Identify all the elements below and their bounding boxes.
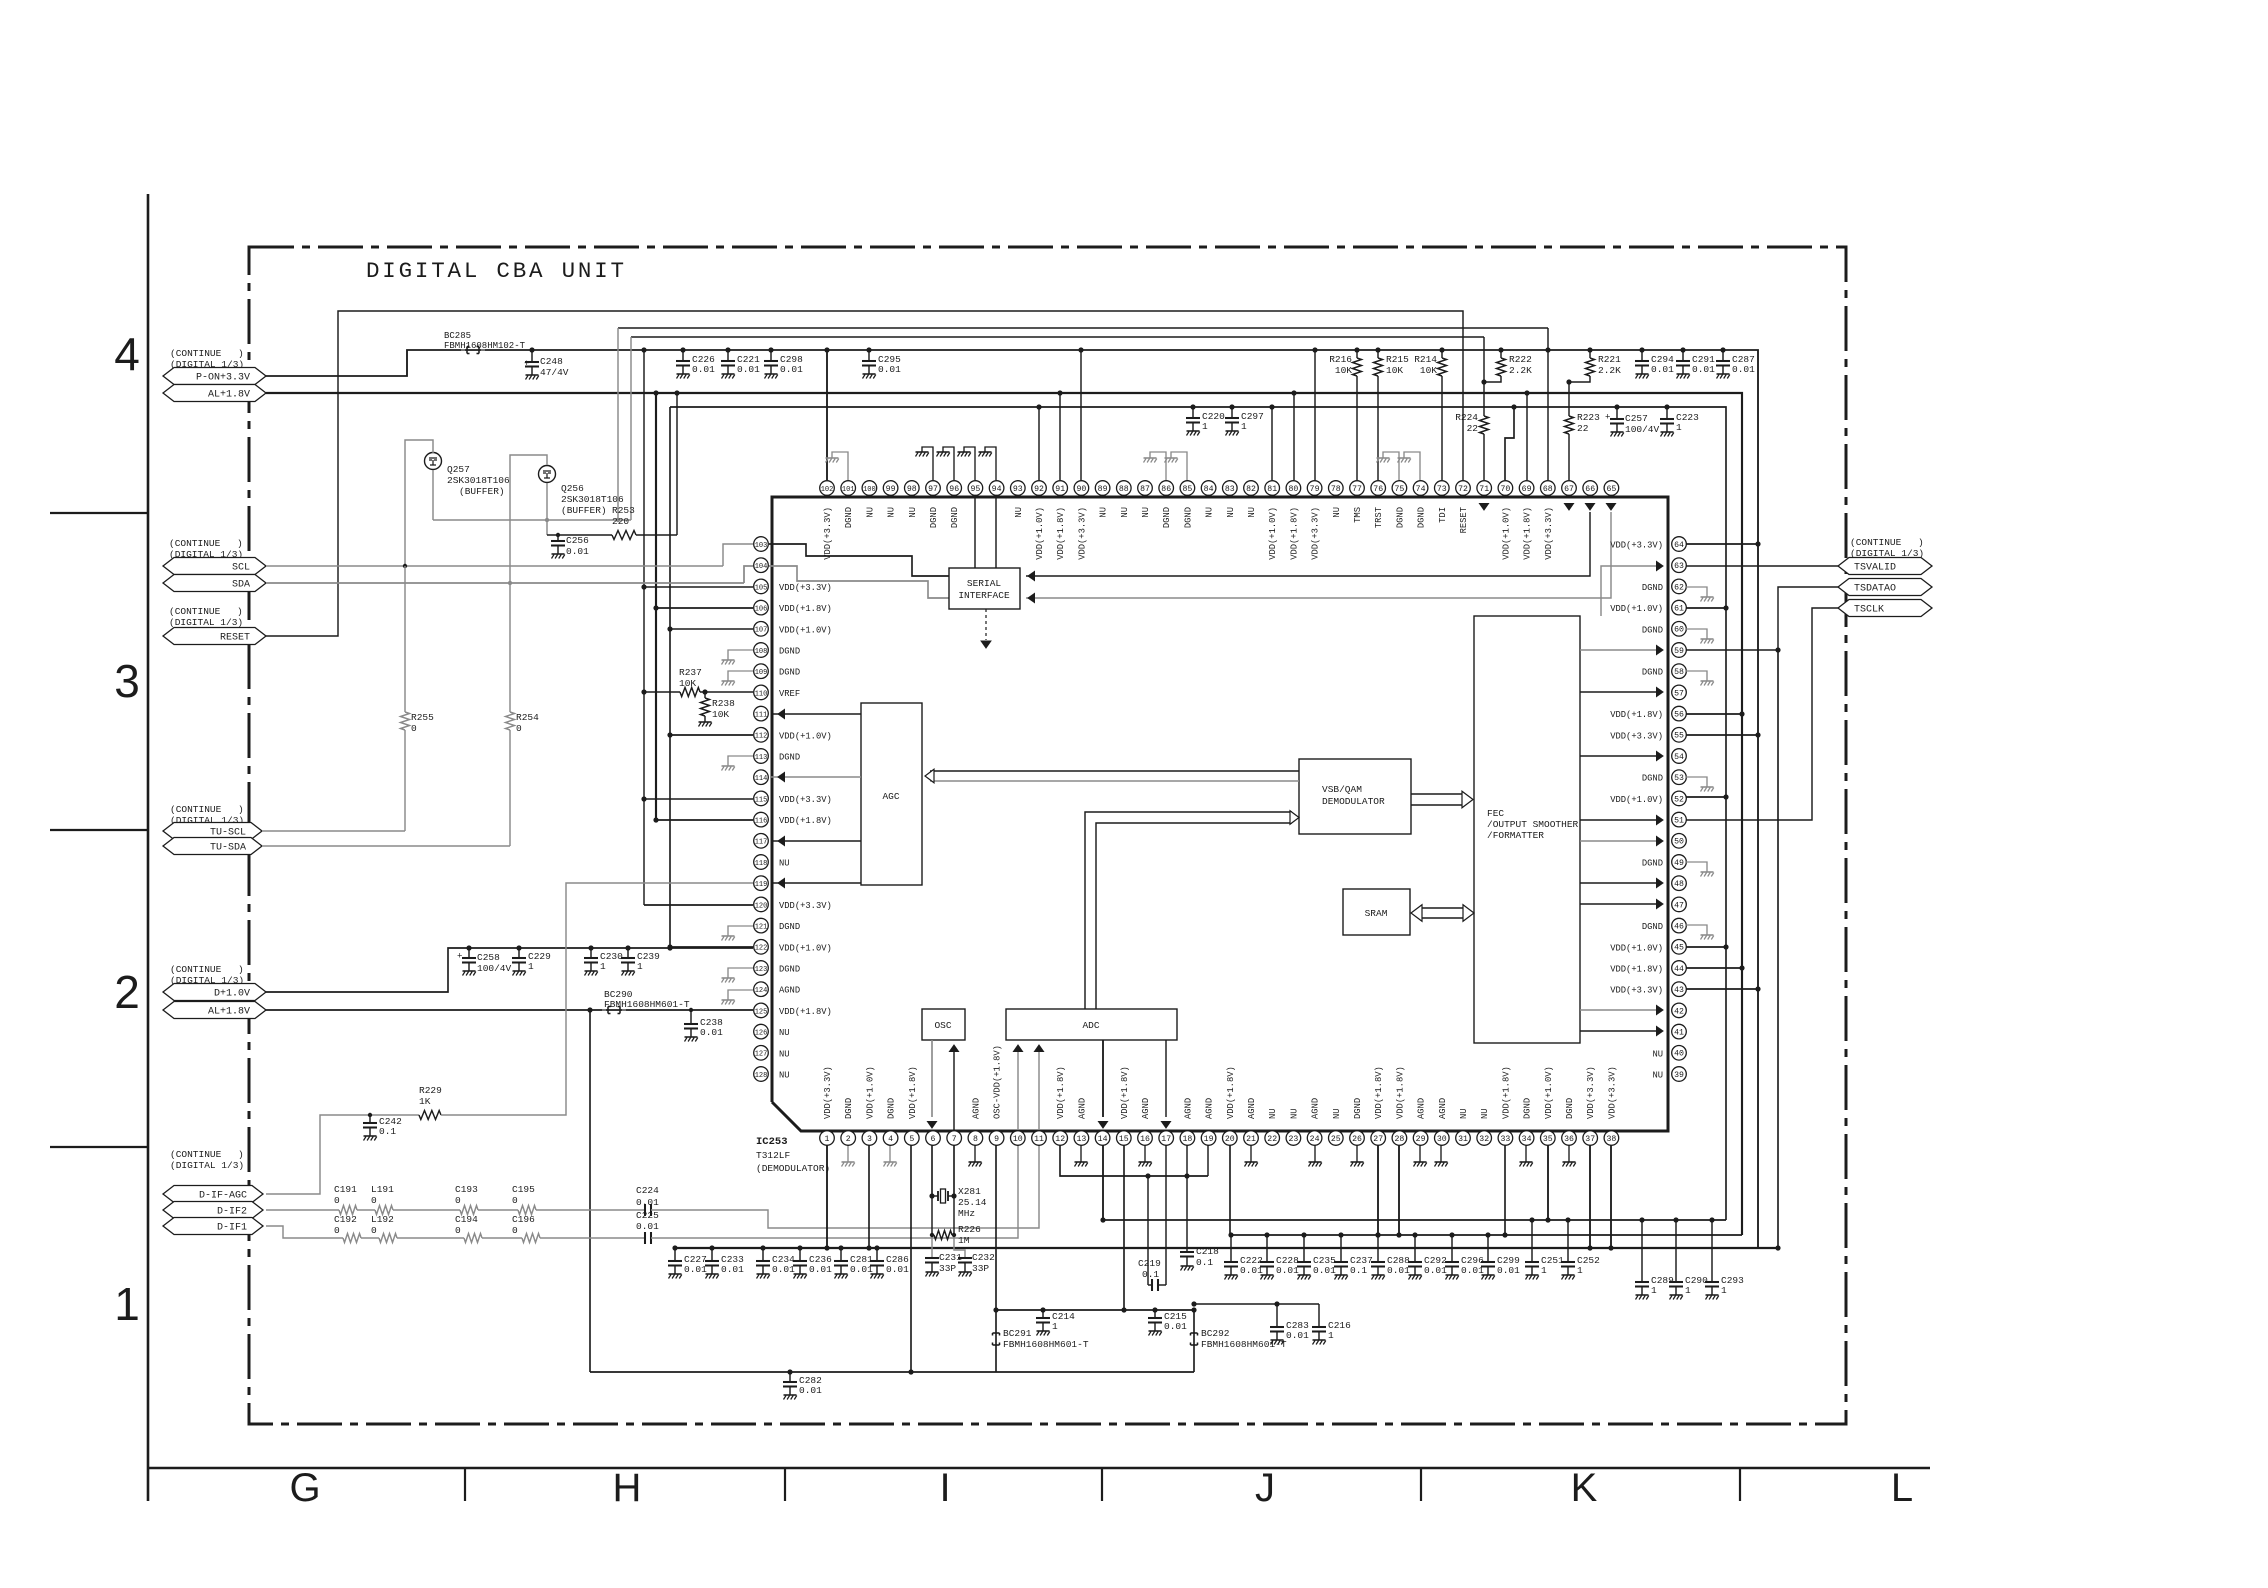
svg-text:0.01: 0.01 <box>1313 1265 1336 1276</box>
pin 107 <box>754 622 769 637</box>
svg-text:R254: R254 <box>516 712 539 723</box>
svg-text:(CONTINUE: (CONTINUE <box>1850 537 1902 548</box>
resistor R221 2.2K <box>1589 350 1591 358</box>
svg-text:DGND: DGND <box>887 1098 897 1119</box>
resistor C193 0 <box>460 1206 478 1215</box>
wire pin18 to C218 <box>1186 1145 1188 1252</box>
pin 101 <box>841 481 856 496</box>
svg-text:28: 28 <box>1394 1135 1404 1144</box>
svg-text:1: 1 <box>1685 1285 1691 1296</box>
svg-text:VDD(+3.3V): VDD(+3.3V) <box>1607 1066 1617 1119</box>
svg-text:R238: R238 <box>712 698 735 709</box>
svg-text:106: 106 <box>755 606 768 614</box>
wire C214/C215 node line <box>996 1309 1194 1311</box>
svg-text:NU: NU <box>1289 1108 1299 1119</box>
pin 62 <box>1672 579 1687 594</box>
svg-text:33: 33 <box>1500 1135 1510 1144</box>
svg-text:NU: NU <box>1141 507 1151 518</box>
svg-text:VDD(+3.3V): VDD(+3.3V) <box>1586 1066 1596 1119</box>
resistor R226 1M <box>931 1196 933 1235</box>
capacitor C299 <box>1487 1235 1489 1262</box>
wire P-ON+3.3V rail y350 <box>266 350 1758 1248</box>
pin 121 <box>754 918 769 933</box>
resistor R223 22 <box>1568 382 1570 416</box>
svg-text:): ) <box>238 348 244 359</box>
pin 119 <box>754 876 769 891</box>
pin 73 <box>1435 481 1450 496</box>
svg-text:114: 114 <box>755 775 768 783</box>
svg-text:54: 54 <box>1674 753 1684 762</box>
svg-text:VDD(+1.8V): VDD(+1.8V) <box>908 1066 918 1119</box>
capacitor C215 <box>1154 1310 1156 1318</box>
pin 24 <box>1307 1131 1322 1146</box>
svg-text:42: 42 <box>1674 1007 1684 1016</box>
wire pin15 drop to C214 line <box>1123 1145 1125 1310</box>
svg-text:R223: R223 <box>1577 412 1600 423</box>
svg-text:32: 32 <box>1479 1135 1489 1144</box>
pin 39 <box>1672 1067 1687 1082</box>
pin 47 <box>1672 897 1687 912</box>
svg-text:0.01: 0.01 <box>692 364 715 375</box>
svg-text:(DIGITAL 1/3): (DIGITAL 1/3) <box>170 1160 244 1171</box>
svg-text:AGND: AGND <box>971 1098 981 1119</box>
pin 38 <box>1604 1131 1619 1146</box>
svg-text:36: 36 <box>1564 1135 1574 1144</box>
svg-text:105: 105 <box>755 584 768 592</box>
connector SCL <box>163 558 266 575</box>
svg-text:0.01: 0.01 <box>886 1264 909 1275</box>
pin 126 <box>754 1024 769 1039</box>
svg-text:TRST: TRST <box>1374 507 1384 528</box>
capacitor C236 <box>799 1248 801 1261</box>
capacitor C257 polarized <box>1616 407 1618 419</box>
svg-text:13: 13 <box>1076 1135 1086 1144</box>
svg-text:90: 90 <box>1076 485 1086 494</box>
svg-text:0.1: 0.1 <box>1196 1257 1213 1268</box>
svg-text:VDD(+1.8V): VDD(+1.8V) <box>1056 507 1066 560</box>
wire SDA riser to pin104 <box>744 566 753 583</box>
ground pin101 <box>832 452 848 480</box>
svg-text:24: 24 <box>1310 1135 1320 1144</box>
svg-text:): ) <box>238 964 244 975</box>
svg-text:56: 56 <box>1674 711 1684 720</box>
svg-text:VDD(+1.0V): VDD(+1.0V) <box>779 943 832 953</box>
connector TSDATAO <box>1838 579 1932 596</box>
connector TSVALID <box>1838 558 1932 575</box>
svg-text:116: 116 <box>755 818 768 826</box>
svg-text:DGND: DGND <box>1642 922 1663 932</box>
wire pin44 to 1.8V riser <box>1686 967 1742 969</box>
svg-text:DGND: DGND <box>1162 507 1172 528</box>
wire pin95 to serial interface <box>974 497 976 568</box>
wire pin63 to TSVALID <box>1686 565 1838 567</box>
svg-text:10K: 10K <box>1420 365 1437 376</box>
svg-text:AL+1.8V: AL+1.8V <box>208 389 250 400</box>
pin 61 <box>1672 600 1687 615</box>
svg-text:OSC: OSC <box>934 1020 951 1031</box>
svg-text:62: 62 <box>1674 583 1684 592</box>
svg-text:72: 72 <box>1458 485 1468 494</box>
svg-text:123: 123 <box>755 966 768 974</box>
svg-text:57: 57 <box>1674 689 1684 698</box>
resistor R254 0 <box>509 583 511 712</box>
hollow arrow ADC to VSB <box>1085 812 1292 1009</box>
capacitor C288 <box>1377 1235 1379 1262</box>
svg-text:125: 125 <box>755 1008 768 1016</box>
svg-text:AGC: AGC <box>882 791 899 802</box>
wire pin90 riser to 3.3V rail <box>1080 350 1082 480</box>
pin 81 <box>1265 481 1280 496</box>
wire AGC to pin119 <box>771 882 861 884</box>
svg-text:L: L <box>1891 1466 1913 1510</box>
svg-text:C225: C225 <box>636 1210 659 1221</box>
svg-text:(CONTINUE: (CONTINUE <box>170 964 222 975</box>
capacitor C230 <box>590 948 592 958</box>
capacitor C281 <box>840 1248 842 1261</box>
pin 92 <box>1032 481 1047 496</box>
svg-text:Q257: Q257 <box>447 464 470 475</box>
pin 110 <box>754 685 769 700</box>
svg-text:X281: X281 <box>958 1186 981 1197</box>
svg-text:0: 0 <box>334 1225 340 1236</box>
svg-text:ADC: ADC <box>1082 1020 1099 1031</box>
svg-text:AGND: AGND <box>779 986 800 996</box>
pin 57 <box>1672 685 1687 700</box>
svg-text:DGND: DGND <box>1523 1098 1533 1119</box>
pin 116 <box>754 812 769 827</box>
svg-text:C257: C257 <box>1625 413 1648 424</box>
svg-text:37: 37 <box>1585 1135 1595 1144</box>
pin 42 <box>1672 1003 1687 1018</box>
pin 124 <box>754 982 769 997</box>
svg-text:(DIGITAL 1/3): (DIGITAL 1/3) <box>169 617 243 628</box>
wire pin1 to 3.3V bus <box>826 1145 828 1248</box>
wire D-IF2 chain <box>266 1209 339 1211</box>
svg-text:0.01: 0.01 <box>1424 1265 1447 1276</box>
wire TSDATAO riser upper <box>1778 587 1838 650</box>
svg-text:D-IF2: D-IF2 <box>217 1206 247 1217</box>
svg-text:0.01: 0.01 <box>737 364 760 375</box>
pin 58 <box>1672 664 1687 679</box>
svg-text:DGND: DGND <box>779 922 800 932</box>
bead BC290 <box>607 1007 609 1014</box>
svg-text:VDD(+1.8V): VDD(+1.8V) <box>1226 1066 1236 1119</box>
capacitor C292 <box>1414 1235 1416 1262</box>
wire C219 riser <box>1147 1176 1149 1285</box>
wire pin112 1.0V feed <box>670 734 753 736</box>
pin 113 <box>754 749 769 764</box>
svg-text:26: 26 <box>1352 1135 1362 1144</box>
svg-text:95: 95 <box>970 485 980 494</box>
wire pin14 drop <box>1102 1145 1104 1220</box>
svg-text:DGND: DGND <box>1353 1098 1363 1119</box>
svg-text:AGND: AGND <box>1417 1098 1427 1119</box>
ground pin95 <box>964 447 975 480</box>
wire TU-SDA <box>262 845 510 847</box>
svg-text:5: 5 <box>909 1135 914 1144</box>
svg-text:100/4V: 100/4V <box>1625 424 1660 435</box>
pin 55 <box>1672 728 1687 743</box>
svg-text:DGND: DGND <box>1395 507 1405 528</box>
svg-text:2SK3018T106: 2SK3018T106 <box>561 494 624 505</box>
svg-text:R255: R255 <box>411 712 434 723</box>
svg-text:10K: 10K <box>712 709 729 720</box>
svg-text:DIGITAL CBA UNIT: DIGITAL CBA UNIT <box>366 258 627 284</box>
ground pin74 <box>1404 452 1420 480</box>
svg-text:VDD(+1.8V): VDD(+1.8V) <box>1374 1066 1384 1119</box>
pin 100 <box>862 481 877 496</box>
svg-text:4: 4 <box>114 328 140 380</box>
svg-text:1: 1 <box>528 961 534 972</box>
wire buffer node row 520 <box>433 519 631 521</box>
svg-text:BC292: BC292 <box>1201 1328 1230 1339</box>
pin 122 <box>754 940 769 955</box>
svg-text:67: 67 <box>1564 485 1574 494</box>
svg-text:40: 40 <box>1674 1050 1684 1059</box>
svg-text:TSDATAO: TSDATAO <box>1854 583 1896 594</box>
wire pin105 3.3V feed <box>644 586 753 588</box>
connector TSCLK <box>1838 600 1932 617</box>
svg-text:VDD(+1.0V): VDD(+1.0V) <box>1035 507 1045 560</box>
wire pin12 node <box>1060 1145 1208 1176</box>
svg-text:0.01: 0.01 <box>799 1385 822 1396</box>
svg-text:DGND: DGND <box>779 753 800 763</box>
pin 89 <box>1095 481 1110 496</box>
wire pin107 1.0V feed <box>670 628 753 630</box>
pin 111 <box>754 706 769 721</box>
svg-text:18: 18 <box>1182 1135 1192 1144</box>
pin 49 <box>1672 855 1687 870</box>
svg-text:127: 127 <box>755 1051 768 1059</box>
capacitor C219 series <box>1151 1279 1153 1291</box>
svg-text:11: 11 <box>1034 1135 1044 1144</box>
svg-text:NU: NU <box>908 507 918 518</box>
svg-text:NU: NU <box>1014 507 1024 518</box>
svg-text:104: 104 <box>755 563 768 571</box>
pin 68 <box>1541 481 1556 496</box>
wire AGC to pin117 <box>771 840 861 842</box>
wire pin28 drop <box>1398 1145 1400 1235</box>
wire pin104 to serial interface <box>769 566 949 598</box>
block OSC <box>922 1009 965 1040</box>
wire pin55 to 3.3V riser <box>1686 734 1758 736</box>
svg-text:0.01: 0.01 <box>1732 364 1755 375</box>
pin 15 <box>1117 1131 1132 1146</box>
pin 8 <box>968 1131 983 1146</box>
wire bottom bus 1.0V y1220 <box>1103 1219 1726 1221</box>
svg-text:AGND: AGND <box>1141 1098 1151 1119</box>
svg-text:VDD(+1.8V): VDD(+1.8V) <box>1395 1066 1405 1119</box>
svg-text:43: 43 <box>1674 986 1684 995</box>
svg-text:VDD(+3.3V): VDD(+3.3V) <box>779 583 832 593</box>
ground pin29 <box>1419 1145 1421 1162</box>
pin 11 <box>1032 1131 1047 1146</box>
block AGC <box>861 703 922 885</box>
svg-text:AL+1.8V: AL+1.8V <box>208 1006 250 1017</box>
svg-text:0.01: 0.01 <box>1651 364 1674 375</box>
svg-text:AGND: AGND <box>1077 1098 1087 1119</box>
svg-text:74: 74 <box>1416 485 1426 494</box>
svg-text:31: 31 <box>1458 1135 1468 1144</box>
pin 96 <box>947 481 962 496</box>
ground pin60 <box>1686 629 1707 639</box>
svg-text:DGND: DGND <box>1642 668 1663 678</box>
svg-text:OSC-VDD(+1.8V): OSC-VDD(+1.8V) <box>993 1045 1003 1119</box>
svg-text:SDA: SDA <box>232 579 250 590</box>
bead BC292 <box>1193 1310 1195 1372</box>
pin 94 <box>989 481 1004 496</box>
wire FEC to pin41 <box>1580 1030 1657 1032</box>
svg-text:108: 108 <box>755 648 768 656</box>
pin 112 <box>754 728 769 743</box>
pin 33 <box>1498 1131 1513 1146</box>
pin 5 <box>905 1131 920 1146</box>
capacitor C220 <box>1192 407 1194 418</box>
wire pin11 to ADC <box>1038 1052 1040 1131</box>
pin 104 <box>754 558 769 573</box>
svg-text:C232: C232 <box>972 1252 995 1263</box>
svg-text:TSCLK: TSCLK <box>1854 604 1884 615</box>
capacitor C229 <box>518 948 520 958</box>
svg-text:0.01: 0.01 <box>809 1264 832 1275</box>
ground pin96 <box>943 447 954 480</box>
svg-text:0.01: 0.01 <box>1276 1265 1299 1276</box>
svg-text:NU: NU <box>1652 1071 1663 1081</box>
svg-text:(CONTINUE: (CONTINUE <box>170 804 222 815</box>
wire pin52 to 1.0V riser <box>1686 796 1726 798</box>
serial interface dashed arrow <box>985 609 987 640</box>
pin 45 <box>1672 940 1687 955</box>
ground pin26 <box>1356 1145 1358 1162</box>
svg-text:22: 22 <box>1267 1135 1277 1144</box>
svg-text:DGND: DGND <box>779 647 800 657</box>
svg-text:2: 2 <box>846 1135 851 1144</box>
ground pin36 <box>1568 1145 1570 1162</box>
wire serial to pin66 <box>1026 512 1590 576</box>
wire pin43 to 3.3V riser <box>1686 988 1758 990</box>
capacitor C216 <box>1318 1304 1320 1327</box>
svg-text:35: 35 <box>1543 1135 1553 1144</box>
pin 125 <box>754 1003 769 1018</box>
svg-text:(CONTINUE: (CONTINUE <box>170 348 222 359</box>
capacitor C233 <box>711 1248 713 1261</box>
pin 128 <box>754 1067 769 1082</box>
wire C283/C216 branch <box>1194 1303 1319 1305</box>
transistor Q257 2SK3018T106 BUFFER <box>425 453 442 470</box>
svg-text:50: 50 <box>1674 838 1684 847</box>
svg-text:R229: R229 <box>419 1085 442 1096</box>
svg-text:109: 109 <box>755 669 768 677</box>
svg-text:84: 84 <box>1204 485 1214 494</box>
pin 127 <box>754 1046 769 1061</box>
resistor R214 10K <box>1441 350 1443 358</box>
capacitor C298 <box>770 350 772 361</box>
svg-text:VDD(+3.3V): VDD(+3.3V) <box>823 1066 833 1119</box>
svg-text:6: 6 <box>931 1135 936 1144</box>
resistor C194 0 <box>464 1234 482 1243</box>
svg-text:100: 100 <box>863 486 876 494</box>
svg-text:33P: 33P <box>939 1263 956 1274</box>
svg-text:12: 12 <box>1055 1135 1065 1144</box>
svg-text:23: 23 <box>1288 1135 1298 1144</box>
svg-text:2: 2 <box>114 966 140 1018</box>
connector TU-SCL <box>163 823 262 840</box>
pin 83 <box>1223 481 1238 496</box>
svg-text:C224: C224 <box>636 1185 659 1196</box>
pin 1 <box>820 1131 835 1146</box>
block SRAM <box>1343 889 1410 935</box>
pin 16 <box>1138 1131 1153 1146</box>
transistor Q256 2SK3018T106 BUFFER <box>539 466 556 483</box>
wire pin38 drop <box>1610 1145 1612 1248</box>
ground pin30 <box>1440 1145 1442 1162</box>
svg-text:85: 85 <box>1182 485 1192 494</box>
svg-text:VDD(+1.8V): VDD(+1.8V) <box>779 1007 832 1017</box>
wire pin91 riser to AL rail <box>1059 393 1061 480</box>
pin 115 <box>754 791 769 806</box>
svg-text:VDD(+1.8V): VDD(+1.8V) <box>1501 1066 1511 1119</box>
pin 32 <box>1477 1131 1492 1146</box>
svg-text:NU: NU <box>779 1028 790 1038</box>
wire FEC to pin59 <box>1580 649 1657 651</box>
svg-text:K: K <box>1571 1466 1598 1510</box>
svg-text:DGND: DGND <box>779 965 800 975</box>
svg-text:VDD(+3.3V): VDD(+3.3V) <box>1311 507 1321 560</box>
svg-text:0: 0 <box>516 723 522 734</box>
svg-text:SERIAL: SERIAL <box>967 578 1002 589</box>
wire TU-SCL <box>262 830 405 832</box>
svg-text:44: 44 <box>1674 965 1684 974</box>
svg-text:0.01: 0.01 <box>1286 1330 1309 1341</box>
svg-text:0.01: 0.01 <box>850 1264 873 1275</box>
resistor R216 10K <box>1356 350 1358 358</box>
svg-text:75: 75 <box>1394 485 1404 494</box>
svg-text:93: 93 <box>1013 485 1023 494</box>
svg-text:NU: NU <box>1480 1108 1490 1119</box>
ground pin62 <box>1686 587 1707 597</box>
svg-text:20: 20 <box>1225 1135 1235 1144</box>
wire vertical 3.3V branch x644 <box>643 350 645 905</box>
svg-text:113: 113 <box>755 754 768 762</box>
svg-text:1: 1 <box>1577 1265 1583 1276</box>
page frame bottom rule <box>148 1467 1930 1470</box>
svg-text:88: 88 <box>1119 485 1129 494</box>
svg-text:C258: C258 <box>477 952 500 963</box>
wire SCL riser to pin103 <box>723 544 753 566</box>
svg-text:VDD(+3.3V): VDD(+3.3V) <box>1610 541 1663 551</box>
svg-text:126: 126 <box>755 1030 768 1038</box>
svg-text:112: 112 <box>755 733 768 741</box>
ground pin58 <box>1686 671 1707 681</box>
svg-text:0.01: 0.01 <box>1164 1321 1187 1332</box>
svg-text:45: 45 <box>1674 944 1684 953</box>
wire pin68 riser to 3.3V rail <box>1547 328 1549 480</box>
capacitor C237 <box>1340 1235 1342 1262</box>
wire ADC to pin14 <box>1102 1040 1104 1117</box>
svg-text:TU-SCL: TU-SCL <box>210 827 246 838</box>
svg-text:DGND: DGND <box>1642 859 1663 869</box>
svg-text:BC291: BC291 <box>1003 1328 1032 1339</box>
svg-text:59: 59 <box>1674 647 1684 656</box>
svg-text:DGND: DGND <box>1642 583 1663 593</box>
wire pin80 riser to AL rail <box>1293 393 1295 480</box>
pin 65 <box>1604 481 1619 496</box>
pin 118 <box>754 855 769 870</box>
svg-text:VDD(+1.0V): VDD(+1.0V) <box>779 625 832 635</box>
svg-text:122: 122 <box>755 945 768 953</box>
svg-text:0.01: 0.01 <box>636 1221 659 1232</box>
wire VDD+1.0V rail y407 <box>670 407 1726 1220</box>
